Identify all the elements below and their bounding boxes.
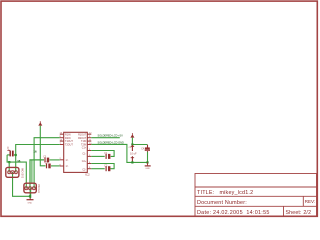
wire net L1 right <box>91 137 120 139</box>
wire conn2 extra drop <box>31 160 33 184</box>
svg-text:REV:: REV: <box>305 199 315 204</box>
wire conn2 middle to gnd <box>29 188 31 198</box>
wire net B <box>16 145 60 173</box>
capacitor C3 <box>43 157 49 163</box>
svg-text:16: 16 <box>17 159 21 163</box>
junction right <box>146 161 148 163</box>
wire net C <box>7 155 26 188</box>
wire net L2 right <box>91 144 147 162</box>
svg-text:T2OUT: T2OUT <box>65 144 73 147</box>
svg-text:SOLDERED-LCD GND: SOLDERED-LCD GND <box>98 140 124 144</box>
svg-text:GND: GND <box>145 168 150 170</box>
svg-text:MICKEY2: MICKEY2 <box>21 168 23 179</box>
junction conn1 left <box>8 161 10 163</box>
svg-text:10 uF: 10 uF <box>130 152 137 156</box>
ground GND left <box>27 198 34 205</box>
capacitor C7 <box>6 147 16 157</box>
svg-text:Date: 24.02.2005 14:01:55: Date: 24.02.2005 14:01:55 <box>197 210 270 216</box>
wire C1 loop top <box>91 151 114 157</box>
svg-text:TITLE: mikey_lcd1.2: TITLE: mikey_lcd1.2 <box>197 190 253 196</box>
svg-text:C1+: C1+ <box>82 147 87 150</box>
wire conn1 middle to gnd <box>13 172 30 196</box>
wire net D comp1 <box>30 160 44 188</box>
IC2 pin names left column <box>65 133 73 168</box>
wire C4 bottom <box>147 152 149 163</box>
supply VCC arrow right <box>130 133 134 137</box>
svg-text:C1-: C1- <box>82 153 86 156</box>
IC2 pin stubs left <box>60 134 64 166</box>
supply VCC arrow left <box>38 121 42 125</box>
wire net A <box>34 138 60 189</box>
svg-text:PROG11: PROG11 <box>37 184 39 194</box>
capacitor C2 <box>104 165 110 171</box>
svg-text:16: 16 <box>33 150 37 154</box>
capacitor C1 <box>104 153 110 159</box>
capacitor C4 <box>141 145 150 152</box>
junction gnd left <box>29 195 31 197</box>
IC IC2 MAX232 body <box>64 132 90 176</box>
IC2 pin stubs right <box>87 134 91 169</box>
svg-text:GND: GND <box>28 202 33 204</box>
IC2 pin names right column <box>78 133 87 171</box>
junction C6 gnd <box>131 161 133 163</box>
capacitor C6 <box>129 145 135 162</box>
junction cap C7 <box>15 154 17 156</box>
wire VCC2 branch <box>132 138 147 145</box>
svg-text:IC2: IC2 <box>85 172 90 176</box>
junction VCC2 <box>131 143 133 145</box>
wire VCC1 vertical <box>40 126 45 166</box>
svg-text:Sheet: 2/2: Sheet: 2/2 <box>286 210 312 216</box>
svg-text:C2-: C2- <box>82 169 86 172</box>
wire C2 left <box>91 168 104 170</box>
capacitor C5 <box>45 163 51 169</box>
connector X1 <box>6 167 23 178</box>
wire C6 bottom stub <box>131 161 133 162</box>
title block frame <box>195 174 317 217</box>
svg-text:Document Number:: Document Number: <box>197 200 247 206</box>
wire C3 to pin <box>50 159 60 161</box>
ground GND right <box>145 162 151 170</box>
wire C1 left <box>91 155 104 157</box>
wire conn1 left drop <box>8 162 10 172</box>
connector JP2 <box>24 183 39 194</box>
wire C5 to pin <box>51 165 60 167</box>
IC2 pin numbers <box>60 133 93 170</box>
svg-text:SOLDERED-LCD +5V: SOLDERED-LCD +5V <box>98 134 124 138</box>
svg-text:C2+: C2+ <box>82 160 87 163</box>
wire C2 loop bottom <box>91 164 114 169</box>
